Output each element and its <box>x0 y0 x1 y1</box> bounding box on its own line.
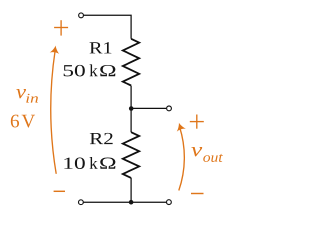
value 10 kOhm <box>64 157 84 168</box>
minus sign vin <box>54 190 65 192</box>
node junction dot mid <box>129 106 134 111</box>
plus sign vout <box>190 115 204 129</box>
label 6 V <box>11 115 19 128</box>
terminal top left <box>79 13 84 18</box>
vout voltage arrow (curved) <box>179 127 185 191</box>
resistor R1 zigzag <box>123 39 139 86</box>
minus sign vout <box>191 193 204 195</box>
terminal bottom right <box>167 200 172 205</box>
value 50 kOhm <box>64 65 85 76</box>
node junction dot bottom <box>129 200 134 205</box>
bottom rail wire <box>84 201 167 203</box>
label R2 <box>90 133 113 144</box>
terminal bottom left <box>79 200 84 205</box>
label vout <box>191 147 202 156</box>
wire R2 bottom to bottom rail <box>130 178 132 202</box>
label R1 <box>90 42 112 53</box>
vout arrowhead <box>174 121 186 131</box>
plus sign vin <box>54 20 68 35</box>
wire R1 bottom to mid node <box>130 86 132 109</box>
wire top rail from input terminal to corner and down to R1 <box>84 15 132 39</box>
vin voltage arrow (curved) <box>51 51 56 174</box>
wire mid node to R2 <box>130 108 132 132</box>
vin arrowhead <box>50 45 61 54</box>
resistor R2 zigzag <box>123 132 139 178</box>
terminal mid right <box>167 106 172 111</box>
wire mid node to output terminal <box>131 107 166 109</box>
label vin <box>16 89 26 98</box>
